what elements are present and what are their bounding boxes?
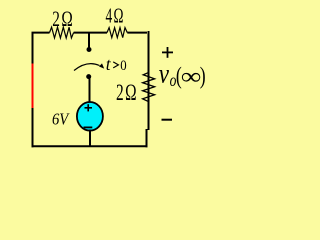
label plus (output polarity) [162,51,173,53]
svg-text:4Ω: 4Ω [106,4,125,28]
wire: source bottom stub [89,130,91,147]
wire: right vertical lower jog [146,129,148,147]
svg-text:): ) [200,62,206,90]
wire: bottom horizontal [32,145,148,147]
svg-text:6V: 6V [52,111,70,129]
wire: left vertical red segment [32,64,34,109]
label minus (output polarity) [162,119,173,121]
resistor R2 4ohm horizontal zigzag [107,28,127,38]
svg-text:0: 0 [120,58,126,74]
resistor R3 2ohm vertical zigzag [143,72,155,102]
wire: right vertical upper [148,31,150,130]
wire: from switch down to source [89,77,91,103]
wire: left vertical (black bottom part) [32,108,34,147]
svg-text:v: v [159,59,170,89]
wire: top horizontal right of 4ohm resistor [127,32,147,34]
switch opening arc with arrowhead [74,64,100,71]
node: switch bottom junction dot [86,74,91,79]
plus sign inside source [85,107,93,109]
node: switch top junction dot [87,47,92,52]
svg-text:∞: ∞ [181,63,202,89]
wire: switch top stub [88,32,90,49]
resistor R1 2ohm horizontal zigzag [50,27,74,38]
voltage source V1 circle [77,102,103,131]
svg-text:2Ω: 2Ω [52,7,74,32]
svg-text:2Ω: 2Ω [116,80,138,106]
wire: left vertical (black top part) [32,32,34,64]
minus sign inside source [84,126,93,128]
svg-text:t: t [106,54,112,74]
wire: top horizontal between resistors [74,32,107,34]
wire: top horizontal left of 2ohm resistor [32,32,50,34]
